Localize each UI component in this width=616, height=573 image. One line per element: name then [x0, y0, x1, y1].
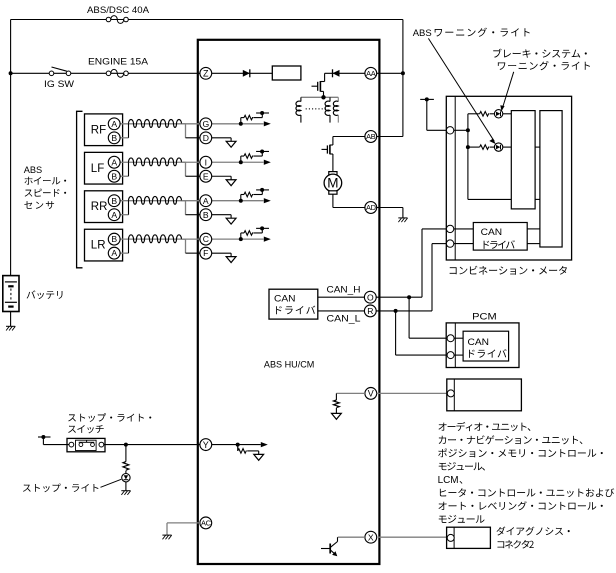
svg-text:B: B — [111, 171, 117, 181]
svg-text:AB: AB — [366, 132, 376, 141]
svg-text:M: M — [327, 176, 338, 191]
svg-text:CAN: CAN — [468, 337, 490, 348]
svg-text:G: G — [202, 119, 209, 129]
svg-text:B: B — [111, 133, 117, 143]
svg-text:A: A — [111, 210, 117, 220]
svg-text:IG SW: IG SW — [44, 79, 74, 90]
svg-text:A: A — [111, 119, 117, 129]
svg-text:ENGINE 15A: ENGINE 15A — [88, 57, 149, 68]
svg-text:B: B — [111, 196, 117, 206]
svg-text:F: F — [203, 248, 208, 258]
svg-text:A: A — [203, 196, 209, 206]
svg-text:B: B — [111, 234, 117, 244]
svg-text:ABS/DSC 40A: ABS/DSC 40A — [87, 5, 150, 16]
svg-text:AD: AD — [366, 203, 376, 212]
svg-text:C: C — [203, 234, 209, 244]
svg-text:CAN_L: CAN_L — [327, 313, 361, 324]
svg-text:RF: RF — [91, 124, 106, 136]
svg-text:R: R — [367, 306, 373, 316]
svg-text:E: E — [203, 171, 209, 181]
svg-text:Z: Z — [203, 69, 209, 79]
svg-text:RR: RR — [91, 201, 108, 213]
svg-text:D: D — [203, 133, 209, 143]
svg-text:LCM: LCM — [438, 475, 459, 486]
svg-text:O: O — [367, 292, 374, 302]
svg-text:B: B — [203, 210, 209, 220]
svg-text:ABS HU/CM: ABS HU/CM — [264, 359, 315, 370]
svg-text:LR: LR — [91, 240, 106, 252]
svg-text:CAN_H: CAN_H — [327, 284, 361, 295]
svg-text:X: X — [368, 532, 374, 542]
svg-text:I: I — [205, 157, 207, 167]
svg-text:LF: LF — [91, 163, 104, 175]
svg-text:ABS: ABS — [413, 28, 432, 39]
svg-text:CAN: CAN — [274, 293, 296, 304]
svg-text:AA: AA — [366, 69, 376, 78]
svg-text:CAN: CAN — [481, 227, 503, 238]
svg-text:PCM: PCM — [472, 312, 497, 323]
svg-text:A: A — [111, 157, 117, 167]
svg-text:V: V — [368, 389, 374, 399]
svg-text:Y: Y — [203, 440, 209, 450]
svg-text:AC: AC — [201, 519, 212, 528]
svg-text:A: A — [111, 248, 117, 258]
svg-text:ABS: ABS — [24, 165, 43, 176]
